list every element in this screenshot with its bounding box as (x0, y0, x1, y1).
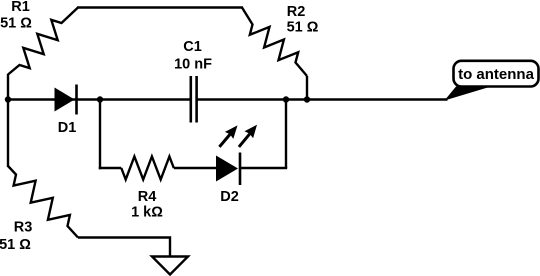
svg-text:to antenna: to antenna (458, 66, 534, 83)
wire main left (node A to C1) (8, 98, 190, 100)
svg-text:51 Ω: 51 Ω (0, 16, 32, 32)
wire R4 to D2 (174, 167, 216, 169)
resistor R2 (242, 8, 307, 77)
svg-text:51 Ω: 51 Ω (287, 20, 319, 36)
node junction LED branch (283, 96, 289, 102)
svg-text:R1: R1 (11, 0, 30, 15)
wire branch bottom left (99, 167, 122, 169)
capacitor C1 (191, 76, 197, 123)
node junction left (5, 96, 11, 102)
svg-text:D2: D2 (220, 189, 239, 205)
callout tail to antenna (445, 87, 492, 101)
node junction D1 branch (97, 96, 103, 102)
wire top (R1 to R2) (77, 6, 243, 8)
resistor R3 (8, 166, 78, 238)
svg-text:51 Ω: 51 Ω (0, 237, 31, 253)
LED D2 (216, 125, 257, 185)
resistor R4 (121, 157, 174, 180)
svg-text:R3: R3 (14, 220, 33, 236)
wire R3 to ground (78, 238, 170, 257)
svg-text:10 nF: 10 nF (174, 57, 212, 73)
wire left vertical (R1 to R3) (7, 74, 9, 167)
wire D2 to branch right (240, 167, 287, 169)
ground (152, 257, 188, 275)
wire branch left vertical (99, 100, 101, 170)
svg-text:R2: R2 (287, 4, 306, 20)
wire main right (C1 to antenna) (197, 98, 448, 100)
resistor R1 (8, 8, 78, 75)
callout box to antenna (454, 61, 539, 87)
diode D1 (55, 85, 77, 115)
svg-text:D1: D1 (58, 120, 77, 136)
svg-text:C1: C1 (183, 39, 202, 55)
svg-text:R4: R4 (138, 189, 157, 205)
wire R2 to main node (306, 76, 308, 100)
node junction R2 (304, 96, 310, 102)
svg-text:1 kΩ: 1 kΩ (131, 205, 163, 221)
wire branch right vertical (285, 100, 287, 169)
